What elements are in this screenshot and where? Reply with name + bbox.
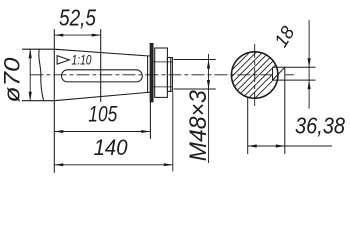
thread end block [167,58,172,92]
140 right arrow [164,163,173,166]
thread crest line top [153,61,172,63]
M48x3 extension line bottom [174,88,216,90]
M48 top arrow [207,60,210,69]
stub top [148,55,151,57]
svg-text:M48×3: M48×3 [185,90,212,162]
cone top edge [54,49,147,56]
wire top outline cylinder + extension [22,48,54,50]
disc extension down to 105 dim [149,102,151,139]
36.38 left extension [247,98,249,155]
stub bottom [148,91,151,93]
M48 bottom arrow [207,80,210,89]
dia70 bottom arrow [29,92,32,101]
keyway slot side view [62,70,143,82]
svg-text:ø70: ø70 [0,57,25,103]
extension line x=100.7 (52.5 right) [100,29,102,102]
svg-text:1:10: 1:10 [72,53,92,68]
M48x3 dimension line vertical [208,54,210,163]
centerline main axis [30,74,294,76]
extension line x=172.8 (140 right) [172,92,174,172]
collar disc [150,44,153,102]
18 top arrow (points down) [308,58,311,67]
svg-text:105: 105 [88,101,118,126]
140 left arrow [54,163,63,166]
washer block [155,48,168,97]
105 left arrow [54,130,63,133]
erase hatch in keyway box [273,67,285,80]
M48x3 extension line top [174,59,216,61]
wire bottom outline cylinder + extension [22,100,54,102]
18 dimension line vertical [308,20,310,109]
dimension line 52.5 [54,34,100,36]
105 right arrow [141,130,150,133]
keyway right edge + 36.38 right extension [284,67,286,154]
36.38 right arrow [276,144,285,147]
dimension line 36.38 [248,145,332,147]
52.5 left arrow [54,34,63,37]
18 bottom arrow (points up) [308,80,311,89]
keyway box end view [272,67,274,80]
svg-text:52,5: 52,5 [59,5,96,31]
dia70 dimension line [29,49,31,100]
cone bottom edge [54,92,147,100]
dia70 top arrow [29,49,32,58]
arrows [29,34,311,167]
cone end vertical [147,56,149,92]
36.38 left arrow [248,144,257,147]
junction vertical / extension line x=54.3 [53,29,55,173]
thread end face double line [170,58,172,92]
dimension line 140 [54,164,173,166]
keyway diagonal [273,67,285,80]
52.5 right arrow [92,34,101,37]
circle end view [232,52,278,98]
break wavy line [39,49,44,100]
svg-text:36,38: 36,38 [295,113,345,139]
dimension line 105 [54,131,150,133]
vertical centerline of circle [254,44,256,106]
svg-text:140: 140 [94,135,129,160]
taper symbol triangle [57,56,69,65]
thread crest line bottom [153,86,172,88]
